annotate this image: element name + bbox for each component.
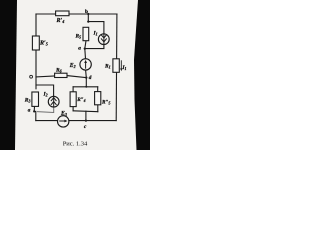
- paper background: [0, 0, 150, 150]
- resistor R6: [55, 73, 67, 77]
- svg-text:b: b: [85, 9, 88, 15]
- wire I2 branch horizontal: [36, 85, 54, 96]
- wire node a2 jog to rail: [34, 111, 36, 120]
- wire I2 bottom faint link: [37, 107, 54, 113]
- svg-text:E3: E3: [60, 111, 67, 117]
- wire current source I1 branch: [88, 22, 104, 34]
- resistor R3: [32, 92, 39, 106]
- EMF source E3: [58, 116, 69, 127]
- wire bottom tie: [73, 110, 98, 113]
- resistor R'5: [32, 36, 39, 50]
- wire left drop to R''4: [72, 87, 74, 92]
- svg-text:R′5: R′5: [39, 41, 48, 47]
- wire right drop to R''5: [97, 87, 99, 92]
- wire R3 bottom stub: [33, 107, 35, 112]
- current arrow I1 beside R1: [120, 60, 122, 71]
- node circle o left: [30, 75, 33, 78]
- node dot d: [85, 76, 87, 78]
- svg-text:Рис. 1.34: Рис. 1.34: [63, 141, 88, 148]
- resistor R''4: [70, 92, 76, 107]
- svg-text:a: a: [28, 107, 31, 113]
- wire top horizontal: [36, 13, 117, 15]
- right black scan bar: [134, 0, 150, 150]
- wire E2 to node d: [85, 70, 88, 78]
- wire node a to E2: [84, 49, 87, 59]
- wire R6 left segment: [36, 75, 55, 78]
- wire drop to node c: [85, 111, 87, 120]
- svg-text:I2: I2: [43, 92, 48, 98]
- svg-text:R′4: R′4: [56, 18, 65, 24]
- node dot junction below b: [87, 20, 89, 22]
- left black scan bar: [0, 0, 17, 150]
- svg-text:I1: I1: [93, 31, 98, 37]
- wire bottom rail right part: [69, 120, 116, 122]
- wire R''4 bottom stub: [72, 107, 74, 111]
- node dot lower rail: [85, 86, 87, 88]
- resistor R''5: [95, 92, 101, 105]
- svg-text:R3: R3: [24, 98, 31, 104]
- svg-text:R6: R6: [55, 67, 62, 73]
- node dot c: [85, 119, 87, 121]
- resistor R5: [83, 27, 89, 40]
- resistor R'4: [56, 11, 69, 16]
- wire R6 right segment: [67, 76, 86, 78]
- svg-text:R1: R1: [104, 64, 111, 70]
- wire middle branch top stub: [87, 14, 89, 22]
- node dot junction b top: [87, 13, 89, 15]
- svg-text:R5: R5: [75, 34, 82, 40]
- svg-text:E2: E2: [69, 63, 76, 69]
- wire bottom rail: [36, 120, 58, 122]
- wire node d down to lower rail: [85, 78, 87, 87]
- svg-text:I1: I1: [121, 65, 126, 71]
- svg-text:d: d: [89, 75, 92, 81]
- wire R''5 bottom stub: [97, 105, 99, 112]
- current source I1 top: [98, 34, 109, 45]
- EMF source E2: [80, 59, 91, 70]
- node dot a: [84, 47, 86, 49]
- wire left branch vertical: [35, 14, 37, 89]
- wire lower center rail: [73, 86, 98, 88]
- resistor R1: [113, 59, 119, 73]
- node dot a2 bottom left: [33, 110, 35, 112]
- wire R5 to node a: [85, 41, 86, 49]
- wire right branch vertical: [115, 14, 118, 121]
- current source I2 bottom left: [48, 96, 59, 107]
- svg-text:a: a: [78, 46, 81, 52]
